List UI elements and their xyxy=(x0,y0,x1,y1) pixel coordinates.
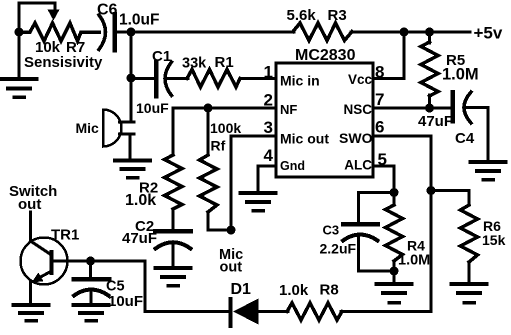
svg-text:6: 6 xyxy=(375,118,384,137)
ground C5 xyxy=(74,305,109,321)
wire C3 top xyxy=(359,193,395,224)
wire Rf top lead xyxy=(207,108,210,155)
svg-text:3: 3 xyxy=(264,118,273,137)
label R5 1.0M xyxy=(442,52,479,84)
label Switch out xyxy=(9,183,57,213)
wire C1 left lead xyxy=(131,77,153,80)
svg-text:ALC: ALC xyxy=(344,158,372,173)
op-amp U1 MC2830 xyxy=(276,63,373,177)
label 1.0k R8 xyxy=(279,282,339,300)
node Rf top xyxy=(204,104,213,113)
resistor R6 xyxy=(461,205,478,262)
resistor R4 xyxy=(386,205,403,261)
wire pin 8 to +5v rail xyxy=(373,32,404,79)
ground pot xyxy=(2,79,37,97)
label Sensisivity xyxy=(24,54,103,71)
capacitor C3 xyxy=(343,224,378,241)
wire C1 right lead xyxy=(166,77,188,80)
svg-text:out: out xyxy=(18,196,41,213)
label C1 xyxy=(152,48,171,65)
svg-text:Mic in: Mic in xyxy=(280,73,320,89)
wire C3 bottom xyxy=(359,238,395,271)
svg-text:C6: C6 xyxy=(97,2,118,19)
wire R8 to SWO rail xyxy=(341,310,431,313)
wire mic bottom lead xyxy=(129,134,132,159)
svg-text:C1: C1 xyxy=(152,48,171,65)
svg-text:1.0k: 1.0k xyxy=(125,192,156,209)
pin 5 label ALC xyxy=(344,150,387,173)
label C5 10uF xyxy=(106,279,143,311)
svg-text:Rf: Rf xyxy=(211,138,226,154)
pin 7 label NSC xyxy=(343,90,384,117)
wire R4 to ground xyxy=(393,261,396,282)
svg-text:SWO: SWO xyxy=(339,130,373,146)
label C3 2.2uF xyxy=(320,223,357,257)
svg-text:+5v: +5v xyxy=(474,24,503,43)
svg-text:47uF: 47uF xyxy=(418,113,453,130)
capacitor C1 xyxy=(156,62,172,96)
label 100k Rf xyxy=(210,120,241,154)
svg-text:NSC: NSC xyxy=(343,102,372,117)
node R5 top xyxy=(425,28,434,37)
svg-text:Sensisivity: Sensisivity xyxy=(24,54,103,71)
wire C5 to ground xyxy=(90,293,93,303)
label C2 47uF xyxy=(122,218,157,247)
svg-text:10uF: 10uF xyxy=(136,100,169,116)
svg-text:4: 4 xyxy=(264,146,274,165)
label C4 xyxy=(455,130,475,147)
svg-text:C3: C3 xyxy=(323,223,340,238)
svg-text:Gnd: Gnd xyxy=(280,159,305,173)
ground R4 xyxy=(377,284,412,303)
svg-text:R4: R4 xyxy=(407,238,425,254)
pin 1 label Mic in xyxy=(264,63,320,89)
svg-text:C4: C4 xyxy=(455,130,475,147)
label 5.6k R3 xyxy=(287,7,347,24)
resistor R1 xyxy=(187,70,240,88)
svg-text:TR1: TR1 xyxy=(51,227,79,244)
resistor R8 xyxy=(287,303,342,320)
ground mic xyxy=(115,161,150,178)
svg-text:47uF: 47uF xyxy=(122,230,157,247)
wire R6 branch xyxy=(431,191,469,206)
wire C6 to R3 xyxy=(115,31,295,34)
label R4 1.0M xyxy=(398,238,430,269)
svg-text:D1: D1 xyxy=(231,281,252,298)
node C1 branch xyxy=(127,74,136,83)
pin 6 label SWO xyxy=(339,118,384,147)
svg-text:10uF: 10uF xyxy=(108,293,143,310)
label C6 xyxy=(97,2,118,19)
resistor R5 xyxy=(421,32,438,108)
svg-text:NF: NF xyxy=(280,102,297,117)
potentiometer R7 xyxy=(19,3,99,76)
node top feed junction xyxy=(127,28,136,37)
node mic out xyxy=(227,226,236,235)
svg-text:15k: 15k xyxy=(482,232,506,248)
node R4 bottom xyxy=(390,267,399,276)
wire Rf bottom to mic out node xyxy=(208,212,231,230)
pin 2 label NF xyxy=(264,91,298,118)
node C5 branch xyxy=(86,257,95,266)
wire C2 to ground xyxy=(172,246,175,266)
svg-text:1.0M: 1.0M xyxy=(442,66,479,84)
wire top junction down to mic xyxy=(130,32,133,122)
capacitor C6 xyxy=(99,14,115,50)
pin 4 label Gnd xyxy=(264,146,305,173)
label +5v xyxy=(474,24,503,43)
svg-text:R1: R1 xyxy=(215,54,234,71)
svg-text:100k: 100k xyxy=(210,120,241,136)
svg-text:Mic out: Mic out xyxy=(280,131,329,147)
wire R3 to +5v xyxy=(351,31,470,34)
label R2 1.0k xyxy=(125,180,158,210)
ground C2 xyxy=(156,268,191,286)
node SWO R6 branch xyxy=(427,186,436,195)
svg-text:7: 7 xyxy=(375,90,384,109)
ground TR1 xyxy=(14,305,49,321)
wire pin 1 xyxy=(240,77,276,80)
node R7 left junction xyxy=(15,28,24,37)
ground R6 xyxy=(452,284,487,303)
ground C4 xyxy=(471,162,506,180)
svg-text:MC2830: MC2830 xyxy=(295,47,356,64)
capacitor C4 xyxy=(453,92,472,123)
transistor TR1 xyxy=(21,212,68,303)
wire pin 3 xyxy=(231,136,276,230)
wire pin 6 down to bottom rail xyxy=(373,136,431,312)
svg-text:Mic: Mic xyxy=(76,120,100,136)
svg-text:R8: R8 xyxy=(320,282,339,299)
svg-text:R3: R3 xyxy=(328,7,347,24)
label 10uF xyxy=(136,100,169,116)
svg-text:1: 1 xyxy=(264,63,273,82)
svg-text:Vcc: Vcc xyxy=(348,72,373,87)
resistor Rf 100k xyxy=(200,155,218,212)
wire TR1 base rail xyxy=(53,261,229,312)
wire pin 7 to C4 xyxy=(373,107,452,110)
label 47uF xyxy=(418,113,453,130)
svg-text:2.2uF: 2.2uF xyxy=(320,241,357,257)
node ALC junction xyxy=(390,188,399,197)
wire pin 4 to ground xyxy=(258,166,276,191)
svg-text:1.0k: 1.0k xyxy=(279,282,309,299)
svg-text:5.6k: 5.6k xyxy=(287,7,317,24)
capacitor C5 xyxy=(74,279,110,296)
diode D1 xyxy=(231,299,259,327)
svg-text:33k: 33k xyxy=(182,56,207,72)
wire C4 to ground xyxy=(465,108,488,161)
wire pin 2 rail xyxy=(173,108,276,155)
label 1.0uF xyxy=(119,12,159,29)
wire R2 to C2 xyxy=(172,209,175,229)
svg-text:1.0uF: 1.0uF xyxy=(119,12,159,29)
microphone Mic xyxy=(103,110,134,147)
label D1 xyxy=(231,281,252,298)
wire C5 lead xyxy=(89,261,92,277)
resistor R3 xyxy=(293,23,352,41)
pin 3 label Mic out xyxy=(264,118,330,147)
label Mic out node xyxy=(219,247,243,276)
wire R6 to ground xyxy=(468,262,471,282)
svg-text:1.0M: 1.0M xyxy=(398,253,430,269)
ground IC pin4 xyxy=(241,193,276,211)
wire D1 to R8 xyxy=(259,310,289,313)
wire pin 5 down xyxy=(373,166,394,205)
label MC2830 xyxy=(295,47,356,64)
capacitor C2 xyxy=(155,231,191,249)
label R6 15k xyxy=(482,218,506,248)
label Mic xyxy=(76,120,100,136)
label 33k R1 xyxy=(182,54,234,72)
svg-text:2: 2 xyxy=(264,91,273,110)
node R5 bottom xyxy=(425,104,434,113)
node Vcc branch xyxy=(400,28,409,37)
label 10k R7 xyxy=(35,39,85,56)
resistor R2 xyxy=(165,155,183,209)
label TR1 xyxy=(51,227,79,244)
pin 8 label Vcc xyxy=(348,63,385,88)
svg-text:out: out xyxy=(220,260,243,276)
